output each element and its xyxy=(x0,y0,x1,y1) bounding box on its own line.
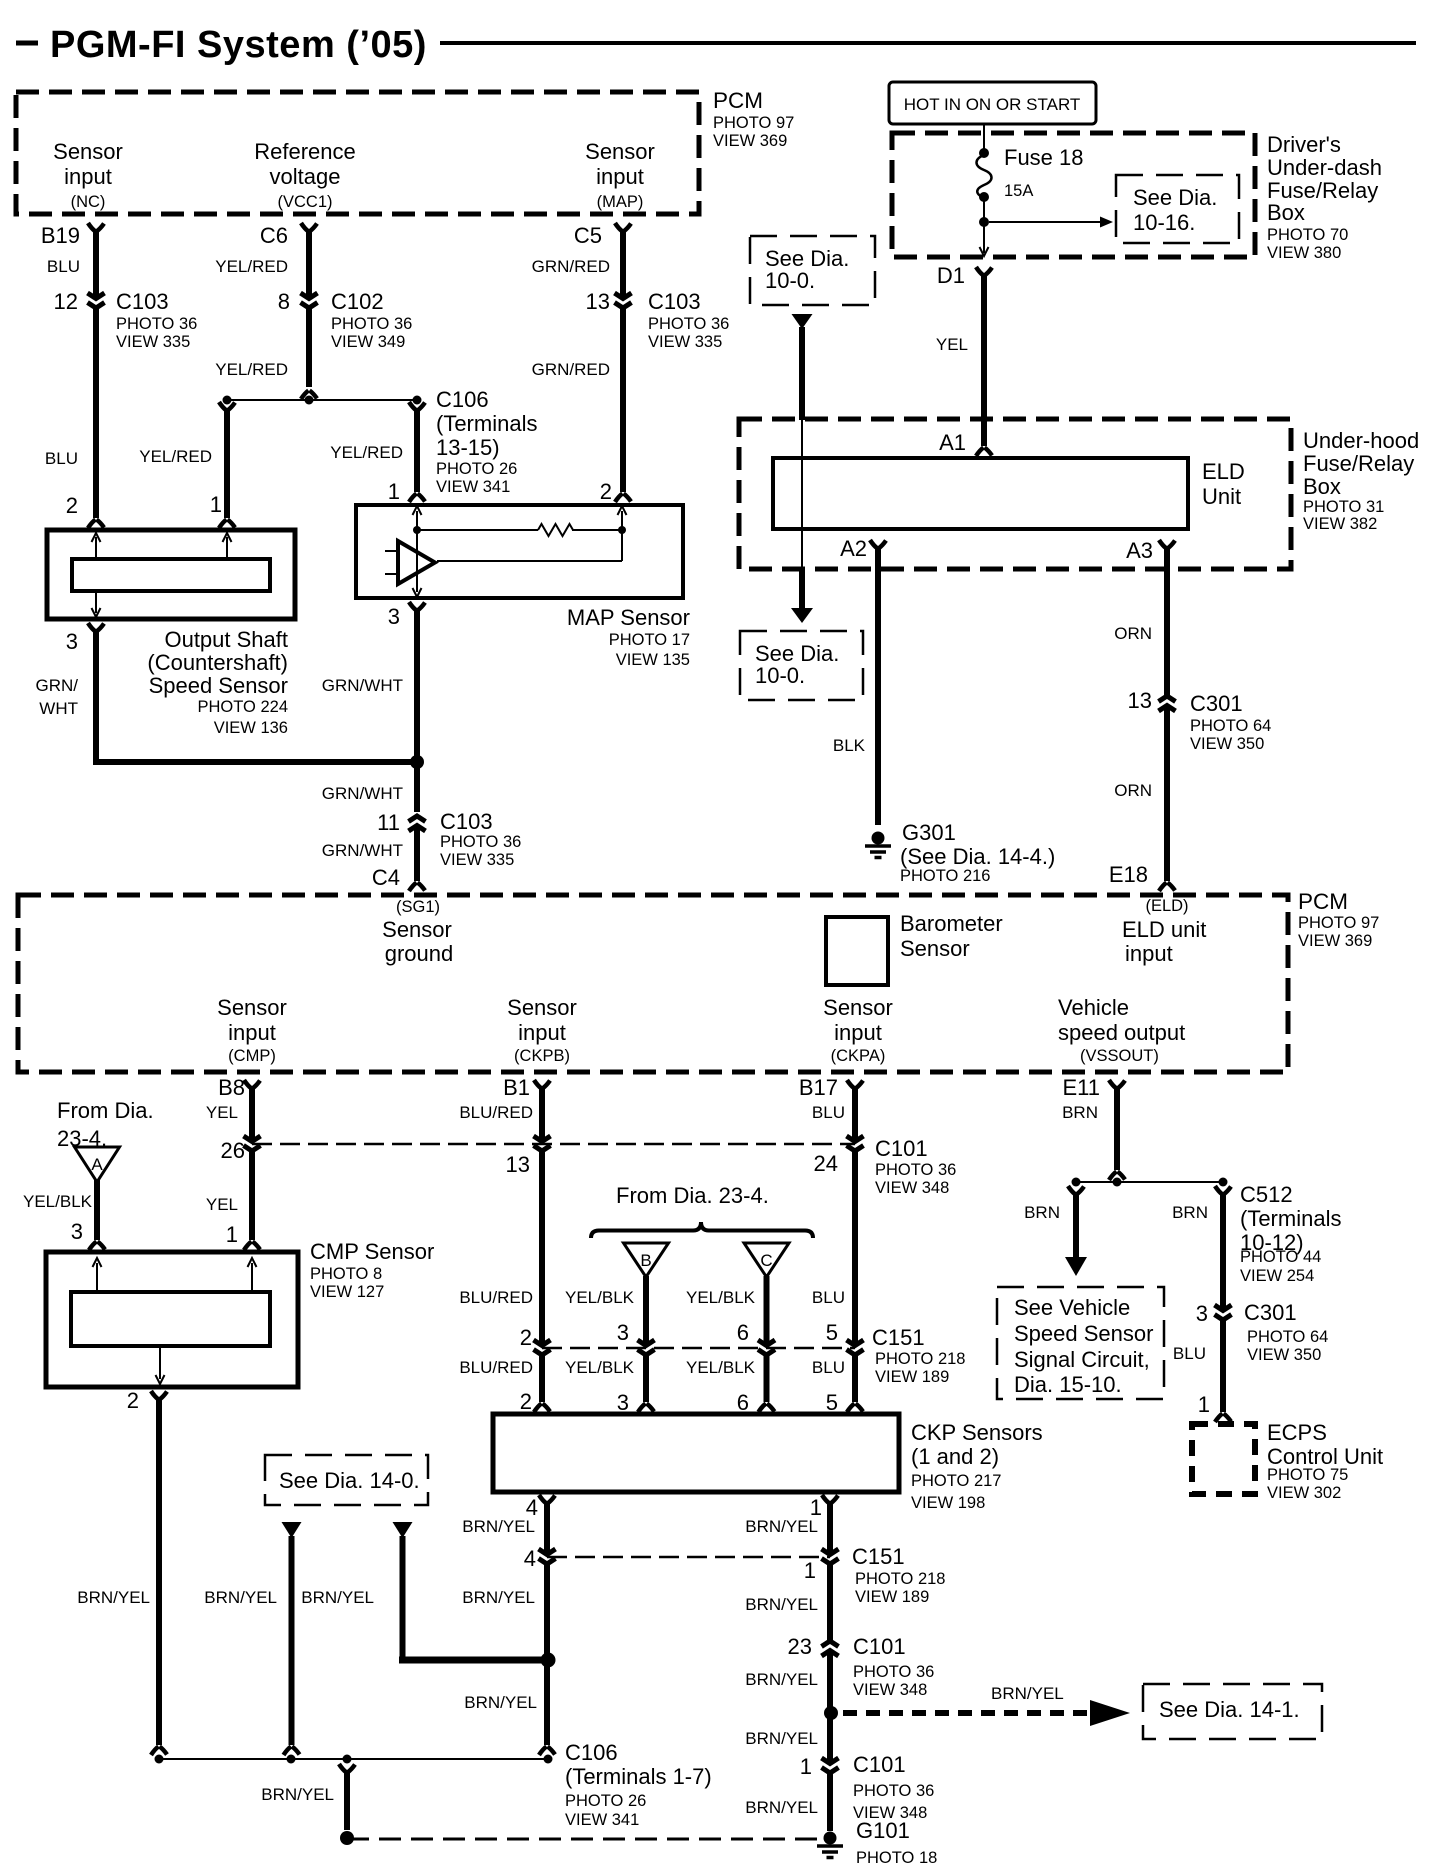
svg-text:C151: C151 xyxy=(852,1544,905,1569)
svg-text:GRN/RED: GRN/RED xyxy=(532,360,610,379)
svg-text:2: 2 xyxy=(520,1325,532,1350)
svg-text:BLU/RED: BLU/RED xyxy=(459,1288,533,1307)
svg-text:VIEW 341: VIEW 341 xyxy=(565,1811,639,1829)
svg-text:G301: G301 xyxy=(902,820,956,845)
svg-text:C101: C101 xyxy=(853,1634,906,1659)
svg-text:26: 26 xyxy=(221,1138,245,1163)
svg-text:Box: Box xyxy=(1303,474,1341,499)
svg-text:BRN/YEL: BRN/YEL xyxy=(462,1517,535,1536)
svg-text:BLU/RED: BLU/RED xyxy=(459,1358,533,1377)
svg-text:(Terminals: (Terminals xyxy=(436,411,537,436)
svg-text:input: input xyxy=(596,164,644,189)
svg-text:PHOTO 64: PHOTO 64 xyxy=(1190,717,1271,735)
svg-text:VIEW 350: VIEW 350 xyxy=(1190,735,1264,753)
svg-text:C103: C103 xyxy=(440,809,493,834)
svg-text:YEL/RED: YEL/RED xyxy=(215,257,288,276)
svg-text:2: 2 xyxy=(600,479,612,504)
svg-text:(Countershaft): (Countershaft) xyxy=(147,650,288,675)
svg-text:VIEW 348: VIEW 348 xyxy=(853,1681,927,1699)
svg-text:1: 1 xyxy=(800,1754,812,1779)
svg-text:(SG1): (SG1) xyxy=(396,898,440,916)
svg-text:10-0.: 10-0. xyxy=(755,663,805,688)
svg-text:VIEW 302: VIEW 302 xyxy=(1267,1484,1341,1502)
svg-text:PHOTO 216: PHOTO 216 xyxy=(900,867,990,885)
svg-text:input: input xyxy=(64,164,112,189)
svg-text:VIEW 135: VIEW 135 xyxy=(616,651,690,669)
svg-text:ECPS: ECPS xyxy=(1267,1420,1327,1445)
svg-text:(CKPB): (CKPB) xyxy=(514,1047,570,1065)
svg-text:10-0.: 10-0. xyxy=(765,268,815,293)
svg-text:BLU/RED: BLU/RED xyxy=(459,1103,533,1122)
svg-text:PHOTO 36: PHOTO 36 xyxy=(648,315,729,333)
svg-text:A2: A2 xyxy=(840,536,867,561)
svg-text:BLK: BLK xyxy=(833,736,866,755)
svg-text:Speed Sensor: Speed Sensor xyxy=(1014,1321,1153,1346)
svg-text:BRN/YEL: BRN/YEL xyxy=(745,1517,818,1536)
svg-text:HOT IN ON OR START: HOT IN ON OR START xyxy=(904,95,1081,114)
svg-text:A3: A3 xyxy=(1126,538,1153,563)
svg-text:GRN/WHT: GRN/WHT xyxy=(322,841,403,860)
svg-text:BRN/YEL: BRN/YEL xyxy=(261,1785,334,1804)
svg-text:B17: B17 xyxy=(799,1075,838,1100)
svg-text:B8: B8 xyxy=(218,1075,245,1100)
svg-text:(VCC1): (VCC1) xyxy=(277,193,332,211)
svg-text:Sensor: Sensor xyxy=(900,936,970,961)
svg-text:C151: C151 xyxy=(872,1325,925,1350)
svg-text:C301: C301 xyxy=(1190,691,1243,716)
svg-text:PHOTO 217: PHOTO 217 xyxy=(911,1472,1001,1490)
svg-text:YEL/RED: YEL/RED xyxy=(215,360,288,379)
svg-text:Output Shaft: Output Shaft xyxy=(164,627,288,652)
svg-text:YEL/BLK: YEL/BLK xyxy=(565,1358,635,1377)
svg-text:VIEW 369: VIEW 369 xyxy=(1298,932,1372,950)
svg-text:Reference: Reference xyxy=(254,139,356,164)
svg-text:BRN/YEL: BRN/YEL xyxy=(991,1684,1064,1703)
svg-text:C103: C103 xyxy=(648,289,701,314)
svg-text:VIEW 127: VIEW 127 xyxy=(310,1283,384,1301)
svg-text:GRN/RED: GRN/RED xyxy=(532,257,610,276)
svg-text:11: 11 xyxy=(377,810,400,835)
svg-text:VIEW 369: VIEW 369 xyxy=(713,132,787,150)
svg-text:BRN/YEL: BRN/YEL xyxy=(745,1798,818,1817)
svg-text:Sensor: Sensor xyxy=(585,139,655,164)
svg-text:PHOTO 97: PHOTO 97 xyxy=(1298,914,1379,932)
svg-text:input: input xyxy=(228,1020,276,1045)
svg-text:1: 1 xyxy=(1198,1392,1210,1417)
svg-text:VIEW 189: VIEW 189 xyxy=(855,1588,929,1606)
svg-text:1: 1 xyxy=(388,479,400,504)
svg-text:See Dia. 14-1.: See Dia. 14-1. xyxy=(1159,1697,1300,1722)
svg-text:PHOTO 218: PHOTO 218 xyxy=(855,1570,945,1588)
svg-text:VIEW 350: VIEW 350 xyxy=(1247,1346,1321,1364)
svg-text:VIEW 349: VIEW 349 xyxy=(331,333,405,351)
svg-text:Box: Box xyxy=(1267,200,1305,225)
svg-text:VIEW 382: VIEW 382 xyxy=(1303,515,1377,533)
svg-text:B19: B19 xyxy=(41,223,80,248)
svg-text:GRN/WHT: GRN/WHT xyxy=(322,676,403,695)
svg-text:PHOTO 70: PHOTO 70 xyxy=(1267,226,1348,244)
svg-text:PHOTO 26: PHOTO 26 xyxy=(436,460,517,478)
svg-text:Driver's: Driver's xyxy=(1267,132,1341,157)
svg-text:PHOTO 75: PHOTO 75 xyxy=(1267,1466,1348,1484)
svg-text:13: 13 xyxy=(586,289,610,314)
svg-text:Sensor: Sensor xyxy=(382,917,452,942)
svg-text:PHOTO 18: PHOTO 18 xyxy=(856,1849,937,1867)
svg-text:PHOTO 31: PHOTO 31 xyxy=(1303,498,1384,516)
svg-text:PHOTO 36: PHOTO 36 xyxy=(440,833,521,851)
svg-text:(Terminals 1-7): (Terminals 1-7) xyxy=(565,1764,712,1789)
svg-text:A: A xyxy=(91,1155,103,1174)
svg-text:6: 6 xyxy=(737,1390,749,1415)
svg-text:13: 13 xyxy=(506,1152,530,1177)
svg-text:BLU: BLU xyxy=(47,257,80,276)
svg-text:1: 1 xyxy=(804,1558,816,1583)
svg-text:PHOTO 36: PHOTO 36 xyxy=(875,1161,956,1179)
svg-text:GRN/: GRN/ xyxy=(36,676,79,695)
svg-text:C101: C101 xyxy=(853,1752,906,1777)
svg-text:VIEW 198: VIEW 198 xyxy=(911,1494,985,1512)
svg-text:5: 5 xyxy=(826,1390,838,1415)
svg-text:BLU: BLU xyxy=(812,1103,845,1122)
svg-text:6: 6 xyxy=(737,1320,749,1345)
svg-text:VIEW 335: VIEW 335 xyxy=(440,851,514,869)
svg-text:3: 3 xyxy=(66,629,78,654)
svg-text:BRN/YEL: BRN/YEL xyxy=(745,1670,818,1689)
svg-text:BRN: BRN xyxy=(1172,1203,1208,1222)
svg-text:BRN/YEL: BRN/YEL xyxy=(745,1595,818,1614)
svg-text:4: 4 xyxy=(524,1546,536,1571)
svg-text:Sensor: Sensor xyxy=(217,995,287,1020)
svg-text:VIEW 254: VIEW 254 xyxy=(1240,1267,1314,1285)
svg-text:G101: G101 xyxy=(856,1818,910,1843)
svg-text:PHOTO 36: PHOTO 36 xyxy=(853,1663,934,1681)
svg-text:B: B xyxy=(640,1251,651,1270)
svg-text:YEL/BLK: YEL/BLK xyxy=(686,1288,756,1307)
svg-text:2: 2 xyxy=(127,1388,139,1413)
svg-text:Under-hood: Under-hood xyxy=(1303,428,1419,453)
svg-text:24: 24 xyxy=(814,1151,838,1176)
svg-text:input: input xyxy=(834,1020,882,1045)
svg-text:BLU: BLU xyxy=(812,1288,845,1307)
svg-text:Barometer: Barometer xyxy=(900,911,1003,936)
svg-text:PHOTO 8: PHOTO 8 xyxy=(310,1265,382,1283)
svg-text:C106: C106 xyxy=(565,1740,618,1765)
svg-text:23: 23 xyxy=(788,1634,812,1659)
svg-text:(VSSOUT): (VSSOUT) xyxy=(1080,1047,1159,1065)
svg-text:voltage: voltage xyxy=(270,164,341,189)
svg-text:3: 3 xyxy=(388,604,400,629)
svg-text:See Vehicle: See Vehicle xyxy=(1014,1295,1130,1320)
svg-text:8: 8 xyxy=(278,289,290,314)
svg-text:C301: C301 xyxy=(1244,1300,1297,1325)
svg-text:(CKPA): (CKPA) xyxy=(831,1047,886,1065)
svg-text:13: 13 xyxy=(1128,688,1152,713)
svg-text:BLU: BLU xyxy=(1173,1344,1206,1363)
svg-text:C5: C5 xyxy=(574,223,602,248)
svg-text:PHOTO 17: PHOTO 17 xyxy=(609,631,690,649)
svg-text:VIEW 348: VIEW 348 xyxy=(875,1179,949,1197)
svg-text:Fuse/Relay: Fuse/Relay xyxy=(1303,451,1414,476)
svg-text:PCM: PCM xyxy=(713,88,763,113)
svg-text:PCM: PCM xyxy=(1298,889,1348,914)
svg-text:BRN: BRN xyxy=(1062,1103,1098,1122)
svg-text:VIEW 335: VIEW 335 xyxy=(648,333,722,351)
svg-text:See Dia. 14-0.: See Dia. 14-0. xyxy=(279,1468,420,1493)
svg-text:ground: ground xyxy=(385,941,454,966)
svg-text:CKP Sensors: CKP Sensors xyxy=(911,1420,1043,1445)
svg-text:C101: C101 xyxy=(875,1136,928,1161)
svg-text:(See Dia. 14-4.): (See Dia. 14-4.) xyxy=(900,844,1055,869)
svg-text:BRN/YEL: BRN/YEL xyxy=(301,1588,374,1607)
svg-text:3: 3 xyxy=(71,1219,83,1244)
svg-text:PGM-FI System (’05): PGM-FI System (’05) xyxy=(50,24,427,66)
svg-text:C: C xyxy=(760,1251,772,1270)
svg-text:C103: C103 xyxy=(116,289,169,314)
svg-text:3: 3 xyxy=(617,1320,629,1345)
svg-text:(1 and 2): (1 and 2) xyxy=(911,1444,999,1469)
svg-text:input: input xyxy=(518,1020,566,1045)
svg-text:PHOTO 218: PHOTO 218 xyxy=(875,1350,965,1368)
svg-text:BRN: BRN xyxy=(1024,1203,1060,1222)
svg-text:Fuse 18: Fuse 18 xyxy=(1004,145,1084,170)
svg-text:(Terminals: (Terminals xyxy=(1240,1206,1341,1231)
svg-text:B1: B1 xyxy=(503,1075,530,1100)
svg-text:3: 3 xyxy=(617,1390,629,1415)
svg-text:1: 1 xyxy=(210,492,222,517)
svg-text:PHOTO 44: PHOTO 44 xyxy=(1240,1248,1321,1266)
svg-text:YEL: YEL xyxy=(206,1195,238,1214)
svg-text:12: 12 xyxy=(54,289,78,314)
svg-text:BRN/YEL: BRN/YEL xyxy=(462,1588,535,1607)
svg-text:YEL/BLK: YEL/BLK xyxy=(686,1358,756,1377)
svg-text:2: 2 xyxy=(520,1389,532,1414)
svg-text:ELD: ELD xyxy=(1202,459,1245,484)
svg-text:input: input xyxy=(1125,941,1173,966)
svg-text:YEL/BLK: YEL/BLK xyxy=(565,1288,635,1307)
svg-text:From Dia.: From Dia. xyxy=(57,1098,154,1123)
svg-text:C4: C4 xyxy=(372,865,400,890)
svg-text:YEL: YEL xyxy=(936,335,968,354)
svg-text:15A: 15A xyxy=(1004,182,1033,200)
svg-text:D1: D1 xyxy=(937,263,965,288)
svg-text:From Dia. 23-4.: From Dia. 23-4. xyxy=(616,1183,769,1208)
svg-text:(ELD): (ELD) xyxy=(1145,897,1188,915)
svg-text:2: 2 xyxy=(66,493,78,518)
svg-text:PHOTO 36: PHOTO 36 xyxy=(331,315,412,333)
svg-text:CMP Sensor: CMP Sensor xyxy=(310,1239,434,1264)
svg-text:ORN: ORN xyxy=(1114,624,1152,643)
svg-text:VIEW 136: VIEW 136 xyxy=(214,719,288,737)
svg-text:PHOTO 64: PHOTO 64 xyxy=(1247,1328,1328,1346)
svg-text:E11: E11 xyxy=(1062,1075,1100,1100)
svg-text:Sensor: Sensor xyxy=(507,995,577,1020)
svg-text:YEL/RED: YEL/RED xyxy=(139,447,212,466)
svg-text:BRN/YEL: BRN/YEL xyxy=(745,1729,818,1748)
svg-text:10-16.: 10-16. xyxy=(1133,210,1195,235)
svg-text:Speed Sensor: Speed Sensor xyxy=(149,673,288,698)
svg-text:VIEW 341: VIEW 341 xyxy=(436,478,510,496)
svg-text:Dia. 15-10.: Dia. 15-10. xyxy=(1014,1372,1122,1397)
svg-text:1: 1 xyxy=(226,1222,238,1247)
svg-text:PHOTO 97: PHOTO 97 xyxy=(713,114,794,132)
svg-text:YEL/RED: YEL/RED xyxy=(330,443,403,462)
svg-text:E18: E18 xyxy=(1109,862,1148,887)
svg-text:GRN/WHT: GRN/WHT xyxy=(322,784,403,803)
svg-text:(CMP): (CMP) xyxy=(228,1047,276,1065)
svg-text:Signal Circuit,: Signal Circuit, xyxy=(1014,1347,1150,1372)
svg-text:Vehicle: Vehicle xyxy=(1058,995,1129,1020)
svg-text:MAP Sensor: MAP Sensor xyxy=(567,605,690,630)
svg-text:speed output: speed output xyxy=(1058,1020,1185,1045)
svg-text:BLU: BLU xyxy=(812,1358,845,1377)
svg-text:BRN/YEL: BRN/YEL xyxy=(77,1588,150,1607)
svg-text:Unit: Unit xyxy=(1202,484,1241,509)
svg-text:YEL: YEL xyxy=(206,1103,238,1122)
svg-text:VIEW 335: VIEW 335 xyxy=(116,333,190,351)
svg-text:(MAP): (MAP) xyxy=(597,193,644,211)
svg-text:WHT: WHT xyxy=(39,699,78,718)
svg-text:C106: C106 xyxy=(436,387,489,412)
svg-text:3: 3 xyxy=(1196,1301,1208,1326)
svg-text:PHOTO 36: PHOTO 36 xyxy=(853,1782,934,1800)
svg-text:ELD unit: ELD unit xyxy=(1122,917,1206,942)
svg-text:BRN/YEL: BRN/YEL xyxy=(464,1693,537,1712)
svg-text:YEL/BLK: YEL/BLK xyxy=(23,1192,93,1211)
svg-text:PHOTO 26: PHOTO 26 xyxy=(565,1792,646,1810)
svg-text:Sensor: Sensor xyxy=(823,995,893,1020)
svg-text:BRN/YEL: BRN/YEL xyxy=(204,1588,277,1607)
svg-text:PHOTO 36: PHOTO 36 xyxy=(116,315,197,333)
svg-text:C102: C102 xyxy=(331,289,384,314)
svg-text:5: 5 xyxy=(826,1320,838,1345)
svg-text:See Dia.: See Dia. xyxy=(1133,185,1217,210)
svg-text:Sensor: Sensor xyxy=(53,139,123,164)
svg-text:Under-dash: Under-dash xyxy=(1267,155,1382,180)
svg-text:A1: A1 xyxy=(939,430,966,455)
svg-text:PHOTO 224: PHOTO 224 xyxy=(198,698,288,716)
svg-text:C512: C512 xyxy=(1240,1182,1293,1207)
svg-text:13-15): 13-15) xyxy=(436,435,500,460)
svg-text:C6: C6 xyxy=(260,223,288,248)
svg-text:VIEW 189: VIEW 189 xyxy=(875,1368,949,1386)
svg-text:ORN: ORN xyxy=(1114,781,1152,800)
svg-text:BLU: BLU xyxy=(45,449,78,468)
svg-text:(NC): (NC) xyxy=(71,193,106,211)
svg-text:VIEW 380: VIEW 380 xyxy=(1267,244,1341,262)
